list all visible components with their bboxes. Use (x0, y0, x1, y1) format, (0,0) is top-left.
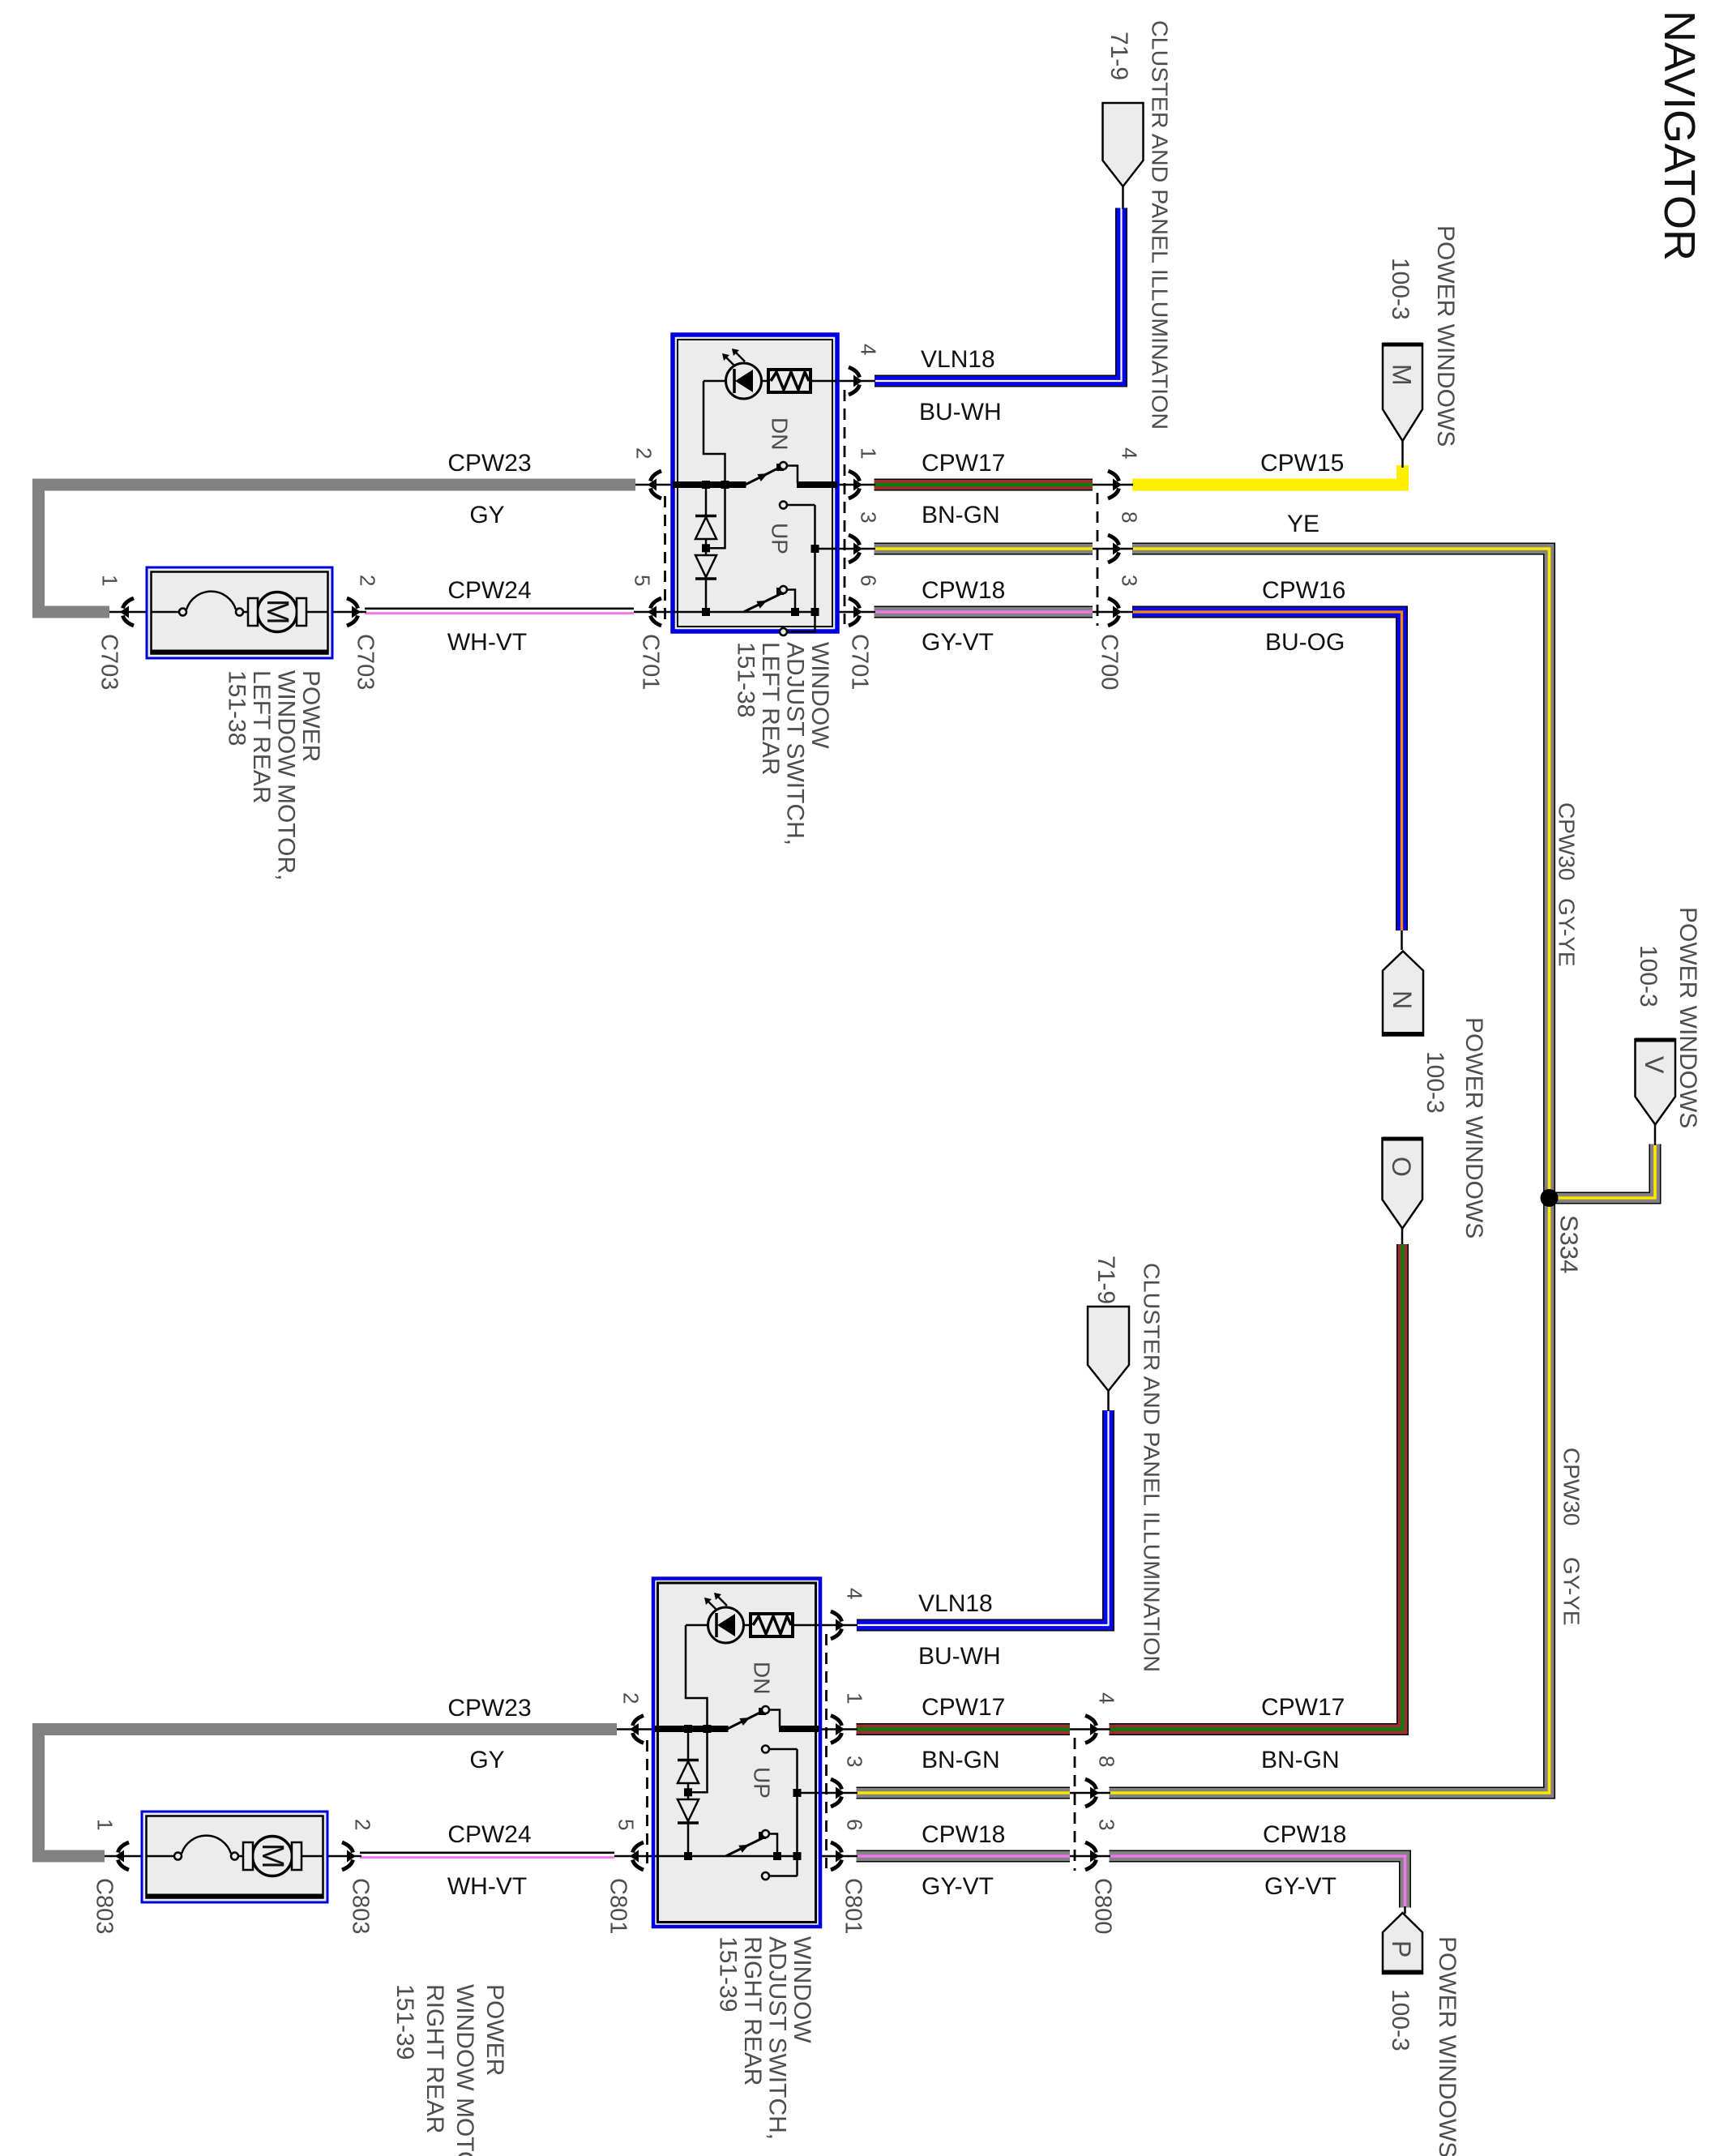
resistor (illumination dropping resistor) (768, 370, 837, 392)
svg-text:CPW30: CPW30 (1555, 802, 1580, 880)
svg-text:CPW23: CPW23 (447, 450, 531, 477)
svg-text:8: 8 (1094, 1756, 1118, 1767)
svg-text:2: 2 (631, 447, 656, 459)
svg-text:BN-GN: BN-GN (1261, 1747, 1340, 1773)
svg-text:71-9: 71-9 (1093, 1256, 1119, 1304)
svg-text:GY-YE: GY-YE (1555, 898, 1580, 967)
svg-text:5: 5 (614, 1819, 638, 1830)
connector V: POWER WINDOWS 100-3 (1636, 1039, 1676, 1125)
svg-text:LEFT REAR: LEFT REAR (757, 642, 784, 776)
svg-text:CPW24: CPW24 (447, 577, 531, 604)
connector C701 dashed boundary (left) (664, 496, 666, 624)
svg-text:YE: YE (1287, 511, 1319, 537)
svg-text:CPW15: CPW15 (1260, 450, 1344, 477)
svg-text:4: 4 (1117, 447, 1141, 459)
svg-text:DN: DN (750, 1662, 775, 1694)
svg-text:GY-YE: GY-YE (1559, 1557, 1585, 1626)
svg-text:C803: C803 (91, 1878, 117, 1934)
svg-text:O: O (1387, 1157, 1416, 1177)
UP switch blade and contacts (655, 1830, 798, 1880)
svg-text:151-38: 151-38 (224, 670, 250, 746)
svg-text:BU-WH: BU-WH (918, 1643, 1001, 1670)
svg-text:2: 2 (355, 575, 379, 586)
LED indicator lamp inside switch (704, 349, 769, 399)
inline connector C700 dashed boundary (1097, 493, 1099, 626)
wire CPW24 WH-VT: motor C803 pin2 to switch C801 pin5 (360, 1853, 614, 1860)
pin arrows at switch U1 (648, 367, 862, 626)
svg-text:GY-VT: GY-VT (922, 629, 994, 656)
svg-text:V: V (1640, 1056, 1669, 1074)
wire CPW18 GY-VT: C800 pin3 to connector P (1110, 1856, 1405, 1908)
svg-text:CPW17: CPW17 (1261, 1694, 1345, 1721)
DN switch blade and contacts (746, 462, 815, 509)
svg-text:6: 6 (856, 575, 880, 586)
motor M2: POWER WINDOW MOTOR, RIGHT REAR (142, 1812, 327, 1902)
svg-text:CPW18: CPW18 (922, 1821, 1005, 1848)
switch U1: WINDOW ADJUST SWITCH, LEFT REAR (673, 335, 837, 631)
wire stubs (thin) bottom half (105, 1391, 1405, 1914)
svg-text:RIGHT REAR: RIGHT REAR (739, 1936, 766, 2085)
resistor (illumination dropping resistor) (751, 1614, 819, 1636)
connector C801 dashed boundary (left) (646, 1740, 648, 1868)
svg-text:100-3: 100-3 (1422, 1051, 1448, 1114)
wire CPW15 YE: C700 pin4 to connector M (1132, 465, 1403, 485)
circuit breaker inside motor (151, 592, 249, 616)
splice S334 junction dot (1541, 1189, 1559, 1207)
wire CPW17 BN-GN: switch pin1 to C800 pin4 (857, 1723, 1071, 1735)
wire CPW18 GY-VT: switch pin6 to C800 pin3 (857, 1850, 1071, 1863)
circuit breaker inside motor (146, 1836, 244, 1860)
svg-text:BN-GN: BN-GN (922, 502, 1000, 528)
svg-text:4: 4 (842, 1588, 866, 1599)
svg-text:POWER WINDOWS: POWER WINDOWS (1432, 225, 1459, 447)
svg-text:N: N (1388, 990, 1417, 1009)
LED indicator lamp inside switch (686, 1593, 751, 1643)
svg-text:2: 2 (618, 1692, 643, 1704)
svg-text:P: P (1387, 1940, 1416, 1957)
wire GY-YE: switch pin3 to C700 pin8 (875, 543, 1093, 555)
svg-text:POWER: POWER (297, 670, 324, 762)
svg-text:BN-GN: BN-GN (922, 1747, 1000, 1773)
pin arrows at C700 (1108, 471, 1122, 626)
svg-text:M: M (1388, 364, 1417, 386)
inline connector C800 dashed boundary (1074, 1738, 1076, 1871)
svg-text:C801: C801 (605, 1878, 631, 1934)
svg-text:151-38: 151-38 (732, 642, 759, 717)
svg-text:CPW17: CPW17 (922, 450, 1005, 477)
pin arrows at C800 (1085, 1716, 1099, 1871)
svg-text:100-3: 100-3 (1387, 1989, 1413, 2051)
wire CPW24 WH-VT: motor C703 pin2 to switch C701 pin5 (365, 609, 634, 616)
svg-text:C700: C700 (1096, 634, 1122, 690)
pin arrows at motor M1 (120, 598, 361, 626)
svg-text:151-39: 151-39 (714, 1936, 741, 2012)
svg-text:LEFT REAR: LEFT REAR (248, 670, 275, 804)
connector P: POWER WINDOWS 100-3 (1383, 1913, 1422, 1974)
svg-text:WH-VT: WH-VT (447, 629, 527, 656)
motor M symbol (248, 592, 328, 632)
svg-text:UP: UP (750, 1767, 775, 1799)
svg-text:5: 5 (630, 575, 654, 586)
svg-text:C701: C701 (846, 634, 872, 690)
diode D1 (695, 485, 716, 539)
svg-text:POWER WINDOWS: POWER WINDOWS (1674, 907, 1701, 1128)
svg-text:100-3: 100-3 (1387, 258, 1413, 320)
svg-text:1: 1 (856, 447, 880, 459)
svg-text:CPW23: CPW23 (447, 1695, 531, 1722)
wire VLN18 BU-WH: switch pin4 to cluster illumination (875, 208, 1122, 382)
wire CPW18 GY-VT: switch pin6 to C700 pin3 (875, 606, 1093, 618)
svg-text:C703: C703 (96, 634, 122, 690)
svg-text:CLUSTER AND PANEL ILLUMINATION: CLUSTER AND PANEL ILLUMINATION (1140, 1263, 1165, 1672)
wire CPW23 GY: switch C701 pin2 to motor C703 pin1 (39, 485, 636, 612)
wire CPW23 GY: switch C801 pin2 to motor C803 pin1 (39, 1730, 618, 1857)
svg-text:8: 8 (1117, 511, 1141, 523)
svg-text:C803: C803 (347, 1878, 373, 1934)
svg-text:6: 6 (842, 1819, 866, 1830)
svg-text:POWER: POWER (481, 1984, 508, 2076)
contact link bus to pins 3 and 6 (811, 505, 838, 632)
wire CPW30 GY-YE: C700 pin8 down right side to C800 pin8 (1110, 549, 1550, 1793)
wire GY-YE: switch pin3 to C800 pin8 (857, 1787, 1071, 1799)
svg-text:WINDOW: WINDOW (789, 1936, 815, 2043)
thick bus wire pin2 to DN switch to pin1 (673, 481, 837, 488)
svg-text:DN: DN (768, 417, 793, 450)
svg-text:GY: GY (469, 1747, 504, 1773)
diode D1 (678, 1729, 699, 1783)
internal wire from LED to switch commons (704, 381, 725, 548)
svg-text:BU-WH: BU-WH (919, 399, 1002, 426)
svg-text:M: M (260, 599, 294, 625)
connector: CLUSTER AND PANEL ILLUMINATION (top) (1103, 103, 1144, 186)
svg-text:WINDOW MOTOR,: WINDOW MOTOR, (273, 670, 300, 880)
svg-text:CPW16: CPW16 (1262, 577, 1345, 604)
connector N (1383, 952, 1423, 1036)
connector C701 dashed boundary (right) (844, 390, 846, 624)
svg-text:CPW30: CPW30 (1559, 1448, 1585, 1525)
wire CPW17 BN-GN: C800 pin4 up to connector O (1110, 1244, 1403, 1730)
svg-text:ADJUST SWITCH,: ADJUST SWITCH, (763, 1936, 790, 2140)
svg-text:VLN18: VLN18 (921, 346, 995, 373)
svg-text:S334: S334 (1555, 1215, 1584, 1273)
svg-text:100-3: 100-3 (1635, 945, 1662, 1007)
svg-text:C703: C703 (352, 634, 378, 690)
svg-text:4: 4 (856, 344, 880, 355)
switch U2: WINDOW ADJUST SWITCH, RIGHT REAR (653, 1579, 820, 1927)
svg-text:BU-OG: BU-OG (1265, 629, 1345, 656)
svg-text:POWER WINDOWS: POWER WINDOWS (1461, 1017, 1487, 1238)
wire VLN18 BU-WH (bottom): switch pin4 to cluster illumination (857, 1410, 1109, 1625)
svg-text:2: 2 (350, 1819, 374, 1830)
DN switch blade and contacts (728, 1706, 798, 1753)
connector: CLUSTER AND PANEL ILLUMINATION (bottom) (1088, 1307, 1129, 1391)
wire stubs (thin) top half (109, 186, 1403, 612)
svg-text:1: 1 (97, 575, 122, 586)
svg-text:C801: C801 (840, 1878, 866, 1934)
svg-text:71-9: 71-9 (1106, 32, 1132, 80)
svg-text:M: M (255, 1843, 289, 1869)
wire GY-YE branch to connector V (splice S334) (1553, 1144, 1655, 1199)
svg-text:1: 1 (92, 1819, 117, 1830)
svg-text:4: 4 (1094, 1692, 1118, 1704)
svg-text:CLUSTER AND PANEL ILLUMINATION: CLUSTER AND PANEL ILLUMINATION (1148, 20, 1173, 430)
junctions on bus (684, 1725, 712, 1860)
diode D2 (695, 539, 716, 612)
svg-text:RIGHT REAR: RIGHT REAR (421, 1984, 448, 2133)
UP switch blade and contacts (673, 586, 815, 635)
svg-text:3: 3 (1094, 1819, 1118, 1830)
svg-text:3: 3 (842, 1756, 866, 1767)
svg-text:GY-VT: GY-VT (922, 1873, 994, 1900)
svg-text:POWER WINDOWS: POWER WINDOWS (1434, 1936, 1461, 2156)
svg-text:ADJUST SWITCH,: ADJUST SWITCH, (781, 642, 808, 845)
svg-text:3: 3 (1117, 575, 1141, 586)
svg-text:C800: C800 (1089, 1878, 1115, 1934)
motor M1: POWER WINDOW MOTOR, LEFT REAR (147, 567, 332, 658)
connector O: POWER WINDOWS 100-3 (1383, 1138, 1423, 1229)
wire CPW17 BN-GN: switch pin1 to C700 pin4 (875, 479, 1093, 491)
svg-text:151-39: 151-39 (391, 1984, 418, 2060)
internal wire from LED to switch commons (686, 1625, 708, 1792)
svg-text:C701: C701 (637, 634, 663, 690)
svg-text:WH-VT: WH-VT (447, 1873, 527, 1900)
connector C801 dashed boundary (right) (825, 1634, 828, 1868)
motor M symbol (243, 1837, 323, 1876)
svg-text:1: 1 (842, 1692, 866, 1704)
svg-text:CPW18: CPW18 (1263, 1821, 1346, 1848)
pin arrows at switch U2 (630, 1611, 845, 1870)
svg-text:CPW17: CPW17 (922, 1694, 1005, 1721)
svg-text:GY: GY (469, 502, 504, 528)
svg-text:CPW24: CPW24 (447, 1821, 531, 1848)
svg-text:3: 3 (856, 511, 880, 523)
svg-text:VLN18: VLN18 (918, 1590, 993, 1617)
diode D2 (678, 1783, 699, 1856)
pin arrows at motor M2 (115, 1842, 356, 1870)
svg-text:CPW18: CPW18 (922, 577, 1005, 604)
svg-text:NAVIGATOR: NAVIGATOR (1655, 11, 1704, 261)
svg-text:WINDOW MOTOR,: WINDOW MOTOR, (451, 1984, 478, 2156)
thick bus wire pin2 to DN switch to pin1 (655, 1726, 819, 1732)
connector M: POWER WINDOWS 100-3 (1383, 344, 1422, 441)
contact link bus to pins 3 and 6 (793, 1749, 820, 1876)
wire CPW16 BU-OG: C700 pin3 to connector N (1132, 612, 1402, 930)
svg-text:GY-VT: GY-VT (1264, 1873, 1337, 1900)
svg-text:WINDOW: WINDOW (806, 642, 833, 749)
junctions on bus (702, 481, 729, 616)
svg-text:UP: UP (768, 523, 793, 554)
